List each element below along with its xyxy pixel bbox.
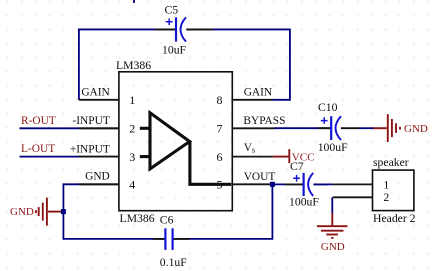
- junction at left ground node: [61, 209, 66, 214]
- ground GND (right of C10): [373, 114, 400, 142]
- wire from pin 4 left and down to bottom rail: [63, 184, 165, 239]
- svg-text:speaker: speaker: [373, 156, 409, 169]
- header pin 2: [333, 196, 373, 198]
- svg-text:GND: GND: [85, 171, 110, 183]
- capacitor C7: [285, 173, 328, 196]
- ground GND (below header): [317, 213, 347, 238]
- ground GND (left): [36, 198, 62, 226]
- pin 8: [232, 99, 272, 101]
- svg-text:GAIN: GAIN: [244, 87, 272, 99]
- pin 7: [232, 127, 274, 129]
- pin 5: [232, 183, 272, 185]
- svg-text:LM386: LM386: [120, 212, 155, 225]
- svg-text:R-OUT: R-OUT: [21, 115, 56, 127]
- svg-text:LM386: LM386: [116, 59, 151, 72]
- op-amp IC U1 LM386: [119, 72, 232, 211]
- svg-text:+INPUT: +INPUT: [70, 143, 110, 155]
- svg-text:2: 2: [129, 122, 135, 136]
- pin 6: [232, 156, 272, 158]
- svg-text:GND: GND: [10, 206, 34, 218]
- svg-text:100uF: 100uF: [289, 196, 319, 209]
- wire C10 right to ground: [359, 127, 374, 129]
- header pin 1: [333, 183, 373, 185]
- pin 3: [79, 156, 119, 158]
- svg-text:1: 1: [383, 178, 389, 191]
- svg-text:6: 6: [217, 150, 223, 164]
- capacitor C10: [318, 116, 360, 140]
- svg-text:Header 2: Header 2: [373, 212, 416, 225]
- wire VOUT node to C7: [272, 183, 302, 185]
- svg-text:C5: C5: [165, 4, 179, 17]
- connector J1 Header 2: [373, 170, 414, 211]
- wire from C5 right terminal right and down to pin 8: [187, 29, 290, 99]
- svg-text:BYPASS: BYPASS: [243, 115, 285, 127]
- svg-text:10uF: 10uF: [162, 44, 187, 57]
- svg-text:5: 5: [217, 178, 223, 192]
- power VCC rail at pin 6: [273, 149, 290, 163]
- svg-text:GND: GND: [321, 241, 345, 253]
- svg-text:C6: C6: [160, 214, 174, 227]
- junction at VOUT node: [270, 182, 275, 187]
- svg-text:GND: GND: [404, 123, 428, 135]
- wire pin 7 to C10: [275, 127, 331, 129]
- pin 2: [79, 127, 119, 129]
- svg-text:1: 1: [129, 93, 135, 107]
- pin 1: [79, 99, 119, 101]
- svg-text:0.1uF: 0.1uF: [160, 256, 187, 269]
- capacitor C5: [155, 17, 213, 41]
- wire C7 to header pin 1: [314, 183, 333, 185]
- svg-text:7: 7: [217, 122, 223, 136]
- wire from pin 1 up and right to C5 left terminal: [79, 29, 175, 99]
- wire net R-OUT to pin 2: [20, 127, 119, 129]
- capacitor C6: [153, 228, 190, 250]
- svg-text:3: 3: [129, 150, 135, 164]
- pin 4: [79, 183, 119, 185]
- svg-text:L-OUT: L-OUT: [21, 143, 55, 155]
- svg-text:VOUT: VOUT: [244, 171, 276, 183]
- svg-text:GAIN: GAIN: [81, 87, 109, 99]
- wire stub remnant at top edge: [133, 0, 135, 3]
- svg-text:C10: C10: [318, 101, 338, 114]
- svg-text:-INPUT: -INPUT: [72, 115, 109, 127]
- wire net L-OUT to pin 3: [20, 156, 119, 158]
- svg-text:C7: C7: [290, 160, 304, 173]
- svg-text:4: 4: [129, 178, 135, 192]
- svg-text:2: 2: [383, 191, 389, 204]
- wire header pin 2 down to ground: [331, 197, 333, 213]
- svg-text:8: 8: [217, 93, 223, 107]
- svg-text:100uF: 100uF: [318, 141, 348, 154]
- wire bottom rail from C6 right up to VOUT node: [173, 184, 273, 239]
